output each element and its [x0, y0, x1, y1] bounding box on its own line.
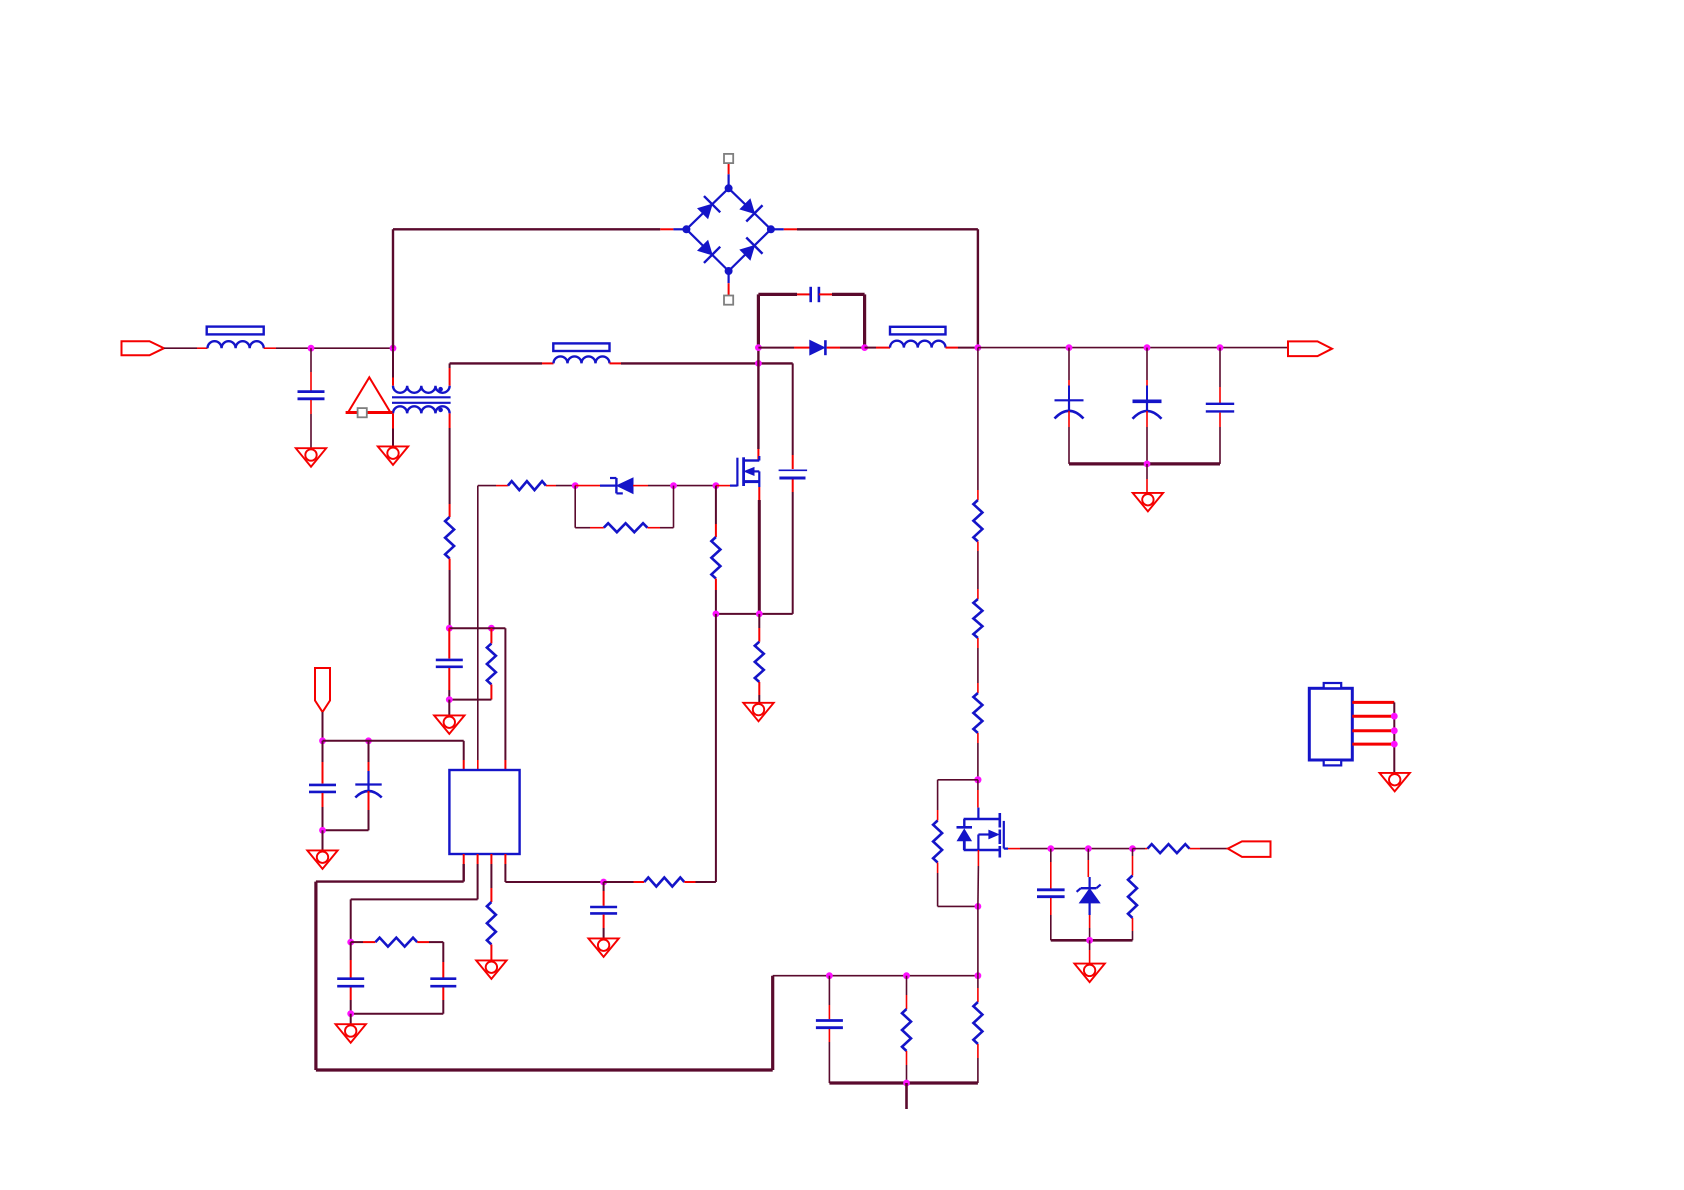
wire	[716, 485, 730, 487]
node	[1086, 937, 1093, 944]
wire	[1050, 898, 1052, 940]
wire	[310, 348, 312, 390]
resistor R17	[973, 1002, 982, 1044]
wire	[1069, 462, 1220, 465]
node	[1085, 845, 1092, 852]
node	[319, 827, 326, 834]
capacitor C12	[590, 907, 617, 913]
wire	[323, 741, 464, 770]
wire	[1068, 411, 1070, 464]
wire	[905, 1083, 908, 1109]
wire	[610, 362, 793, 364]
wire	[448, 668, 450, 700]
node	[1391, 727, 1398, 734]
ground	[336, 1024, 366, 1043]
node	[1391, 741, 1398, 748]
node	[756, 611, 763, 618]
wire	[1089, 940, 1091, 963]
resistor R1	[973, 500, 982, 542]
wire	[1393, 702, 1395, 773]
wire	[322, 741, 324, 784]
wire	[684, 881, 716, 883]
node	[1217, 344, 1224, 351]
wire	[392, 348, 394, 386]
wire	[977, 976, 979, 1002]
capacitor C14	[337, 979, 364, 987]
wire	[977, 780, 979, 808]
wire	[1050, 849, 1052, 889]
node	[446, 696, 453, 703]
wire	[393, 229, 673, 348]
resistor R12	[487, 644, 496, 685]
capacitor C5	[1133, 401, 1162, 419]
port P3 (enable)	[1228, 841, 1271, 857]
wire	[449, 699, 491, 701]
wire	[715, 614, 717, 882]
wire	[316, 854, 464, 882]
wire	[323, 791, 369, 830]
capacitor C7	[1037, 890, 1065, 897]
capacitor C10	[309, 785, 336, 792]
wire	[1132, 849, 1134, 876]
ground	[434, 715, 464, 734]
wire	[792, 363, 794, 469]
capacitor C13	[430, 979, 456, 987]
port P1 (AC line input)	[122, 341, 165, 355]
wire	[575, 527, 604, 529]
resistor R9	[711, 537, 720, 579]
capacitor C15	[816, 1021, 843, 1028]
wire	[758, 614, 760, 642]
connector J1	[1309, 683, 1352, 765]
wire	[1132, 918, 1134, 940]
ground	[476, 960, 506, 979]
terminal square	[724, 154, 733, 163]
ground	[307, 850, 337, 869]
wire	[757, 294, 760, 459]
wire	[977, 542, 979, 600]
port P2 (DC output)	[1288, 341, 1332, 356]
wire	[448, 628, 450, 658]
node	[488, 625, 495, 632]
wire	[758, 682, 760, 703]
node	[446, 625, 453, 632]
node	[1129, 845, 1136, 852]
capacitor C8	[779, 470, 808, 478]
node	[347, 939, 354, 946]
wire	[449, 413, 451, 517]
wire	[819, 294, 865, 347]
capacitor C4	[1055, 400, 1084, 418]
wire	[575, 486, 673, 528]
wire	[977, 1044, 979, 1083]
connector pin	[1352, 701, 1394, 704]
ground	[743, 703, 773, 722]
node	[670, 482, 677, 489]
wire	[505, 854, 603, 882]
node	[975, 344, 982, 351]
wire	[164, 347, 208, 349]
wire	[490, 628, 492, 643]
wire	[938, 780, 978, 821]
wire	[450, 362, 554, 364]
resistor R14	[644, 878, 684, 887]
connector pin	[1352, 715, 1394, 718]
node	[755, 360, 762, 367]
wire	[758, 293, 810, 296]
resistor R2	[973, 599, 982, 638]
resistor R15	[375, 938, 417, 947]
bridge rectifier D1 (diamond)	[673, 163, 783, 296]
wire	[792, 480, 794, 614]
wire	[828, 1029, 830, 1083]
node	[713, 611, 720, 618]
wire	[977, 850, 980, 906]
wire	[1087, 849, 1089, 877]
ground	[1380, 773, 1410, 792]
resistor R8	[604, 523, 648, 532]
surge arrester F1	[346, 377, 393, 412]
wire	[449, 559, 451, 629]
wire	[264, 347, 393, 349]
wire	[829, 1081, 978, 1084]
wire	[350, 942, 352, 977]
wire	[1146, 348, 1148, 402]
node	[319, 737, 326, 744]
wire	[758, 347, 809, 349]
wire	[716, 613, 793, 615]
ground	[378, 446, 408, 465]
node	[1047, 845, 1054, 852]
node	[308, 345, 315, 352]
wire	[977, 638, 979, 693]
wire	[1008, 848, 1133, 850]
wire	[322, 793, 324, 830]
wire	[906, 976, 908, 1009]
wire	[938, 863, 978, 907]
wire	[490, 685, 492, 700]
port P4 (aux supply)	[315, 668, 330, 712]
wire	[310, 400, 312, 448]
wire	[575, 485, 600, 487]
wire	[322, 712, 324, 741]
wire	[758, 487, 760, 614]
connector pin	[1352, 743, 1394, 746]
wire	[417, 942, 443, 977]
node	[974, 776, 981, 783]
diode D2	[810, 340, 826, 355]
wire	[322, 830, 324, 850]
wire	[604, 881, 645, 883]
wire	[350, 988, 352, 1014]
wire	[477, 486, 479, 770]
node	[903, 972, 910, 979]
resistor R3	[973, 693, 982, 733]
capacitor C9	[436, 660, 463, 667]
capacitor C11	[355, 785, 381, 798]
wire	[351, 941, 376, 943]
node	[975, 972, 982, 979]
ground	[588, 938, 618, 957]
inductor L2	[553, 343, 609, 363]
wire	[603, 915, 605, 939]
wire	[546, 485, 575, 487]
wire	[490, 854, 492, 902]
wire	[1190, 848, 1228, 850]
wire	[448, 700, 450, 716]
node	[975, 903, 982, 910]
terminal square	[724, 296, 733, 305]
connector pin	[1352, 729, 1394, 732]
wire	[350, 1014, 352, 1024]
ground	[296, 448, 326, 467]
wire	[827, 347, 865, 349]
node	[861, 344, 868, 351]
node	[1144, 344, 1151, 351]
wire	[449, 363, 451, 385]
wire	[946, 347, 978, 349]
resistor R7	[508, 481, 546, 490]
capacitor C2 (snubber)	[811, 287, 819, 302]
resistor R16	[902, 1009, 911, 1051]
node	[713, 482, 720, 489]
node	[390, 345, 397, 352]
node	[347, 1010, 354, 1017]
wire	[906, 1051, 908, 1083]
wire	[1051, 939, 1133, 942]
zener diode D3	[1077, 877, 1101, 915]
wire	[478, 485, 508, 487]
resistor R13	[487, 902, 496, 945]
inductor L1	[207, 327, 264, 349]
IC U1 (PWM controller)	[449, 770, 519, 854]
wire	[633, 485, 716, 487]
wire	[773, 975, 978, 977]
wire	[368, 741, 370, 785]
capacitor C6	[1206, 404, 1234, 412]
wire	[865, 347, 890, 349]
resistor R4	[933, 821, 942, 863]
node	[903, 1080, 910, 1087]
node	[600, 879, 607, 886]
node	[1391, 713, 1398, 720]
wire	[603, 882, 605, 906]
wire	[1068, 348, 1070, 401]
node	[572, 482, 579, 489]
wire	[715, 486, 717, 537]
transistor Q1 (MOSFET)	[730, 456, 759, 487]
capacitor C1	[298, 392, 325, 399]
wire	[977, 733, 979, 780]
wire	[351, 854, 478, 942]
node	[1144, 461, 1151, 468]
wire	[978, 347, 1288, 349]
node	[755, 344, 762, 351]
wire	[1146, 464, 1148, 493]
wire	[449, 628, 505, 770]
resistor R5	[1148, 844, 1190, 853]
wire	[977, 906, 979, 975]
inductor L3	[890, 327, 946, 348]
wire	[784, 229, 978, 347]
transformer T1 (common-mode choke)	[392, 386, 451, 414]
wire	[351, 988, 444, 1014]
transistor Q2 (MOSFET with body diode)	[957, 808, 1009, 858]
node	[826, 972, 833, 979]
wire	[1089, 915, 1091, 940]
wire	[647, 527, 673, 529]
zener diode D4	[600, 478, 633, 493]
terminal square	[358, 408, 367, 417]
wire	[316, 882, 773, 1070]
node	[1066, 344, 1073, 351]
wire	[977, 348, 979, 500]
resistor R6	[1128, 876, 1137, 919]
wire	[1219, 413, 1221, 464]
resistor R10	[755, 642, 764, 682]
wire	[392, 413, 394, 446]
node	[365, 737, 372, 744]
wire	[490, 945, 492, 961]
resistor R11	[445, 517, 454, 559]
wire	[715, 579, 717, 614]
wire	[1219, 348, 1221, 403]
wire	[1133, 848, 1148, 850]
wire	[828, 976, 830, 1020]
ground	[1074, 964, 1104, 983]
wire	[1146, 411, 1148, 464]
ground	[1133, 493, 1163, 512]
